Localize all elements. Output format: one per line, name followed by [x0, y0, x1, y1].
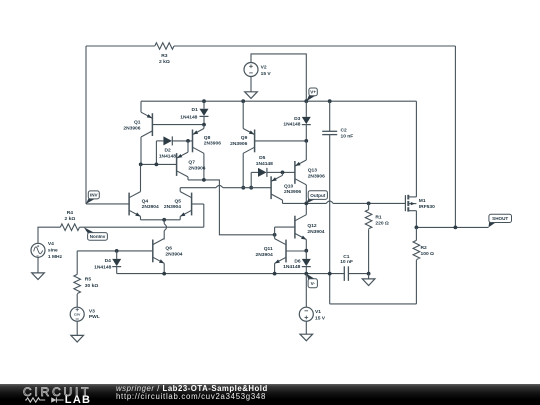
svg-text:M1: M1 — [419, 198, 426, 204]
transistor Q10 — [271, 172, 301, 203]
wire — [141, 163, 177, 165]
ground — [71, 335, 84, 342]
svg-text:1N4148: 1N4148 — [283, 122, 300, 128]
svg-text:R5: R5 — [85, 277, 92, 283]
svg-text:2N3906: 2N3906 — [230, 141, 247, 147]
diode D4 — [94, 251, 121, 274]
wire — [86, 45, 155, 47]
ground — [300, 334, 313, 341]
svg-text:R1: R1 — [375, 215, 382, 221]
transistor Q5 — [164, 188, 204, 220]
wire — [86, 203, 129, 205]
svg-text:2N3906: 2N3906 — [188, 165, 205, 171]
junction — [186, 139, 190, 143]
svg-text:Q13: Q13 — [308, 168, 318, 174]
svg-text:D3: D3 — [294, 116, 301, 122]
wire — [155, 141, 157, 165]
wire — [203, 204, 205, 227]
resistor R1 — [365, 203, 389, 273]
voltage source V3 — [70, 307, 100, 321]
resistor R2 — [413, 227, 434, 304]
wire — [305, 321, 307, 334]
node Output — [306, 191, 327, 204]
wire — [76, 321, 78, 335]
svg-text:sine: sine — [48, 248, 58, 254]
svg-text:2N3906: 2N3906 — [204, 141, 221, 147]
svg-text:V4: V4 — [48, 241, 54, 247]
junction — [328, 272, 332, 276]
diode D2 — [156, 136, 192, 159]
junction — [304, 249, 308, 253]
junction — [202, 123, 206, 127]
resistor R4 — [60, 210, 79, 231]
wire — [80, 226, 204, 228]
svg-text:1N4148: 1N4148 — [180, 114, 197, 120]
transistor Q4 — [129, 164, 159, 219]
voltage source V1 — [299, 274, 325, 322]
transistor Q7 — [177, 141, 206, 180]
transistor Q8 — [193, 125, 222, 180]
ground — [362, 274, 375, 286]
diode D5 — [251, 155, 282, 177]
svg-text:V1: V1 — [315, 309, 321, 315]
svg-text:D5: D5 — [259, 155, 266, 161]
svg-text:V2: V2 — [261, 64, 267, 70]
diode D3 — [283, 101, 310, 141]
junction — [367, 202, 371, 206]
node SHOUT — [489, 214, 512, 227]
wire — [329, 274, 331, 304]
junction — [249, 186, 253, 190]
svg-text:R4: R4 — [67, 210, 74, 216]
svg-text:V3: V3 — [89, 309, 95, 315]
ground — [32, 273, 45, 280]
wire — [283, 201, 406, 203]
wire — [250, 77, 252, 92]
wire — [188, 180, 275, 235]
svg-text:15 V: 15 V — [315, 315, 326, 321]
svg-text:C2: C2 — [341, 128, 348, 134]
svg-text:D6: D6 — [294, 259, 301, 265]
svg-text:R3: R3 — [161, 53, 168, 59]
wire — [415, 211, 417, 228]
svg-text:1N4148: 1N4148 — [256, 161, 273, 167]
svg-text:D4: D4 — [105, 258, 112, 264]
svg-text:10 nF: 10 nF — [340, 259, 353, 265]
svg-text:Q12: Q12 — [307, 223, 317, 229]
svg-text:Q7: Q7 — [188, 159, 195, 165]
svg-text:Q4: Q4 — [142, 198, 149, 204]
junction — [328, 99, 332, 103]
wire — [164, 220, 166, 240]
resistor R5 — [74, 274, 98, 293]
wire — [117, 273, 345, 275]
voltage source V2 — [244, 63, 271, 77]
svg-text:2N3906: 2N3906 — [123, 126, 140, 132]
junction — [162, 218, 166, 222]
svg-text:V-: V- — [311, 281, 316, 286]
svg-text:Q10: Q10 — [284, 183, 294, 189]
svg-text:1 MHz: 1 MHz — [48, 254, 63, 260]
wire — [37, 257, 39, 273]
svg-text:IRF530: IRF530 — [419, 204, 435, 210]
svg-text:2N3904: 2N3904 — [165, 252, 182, 258]
junction — [241, 99, 245, 103]
svg-text:2N3906: 2N3906 — [308, 174, 325, 180]
node V- — [306, 274, 317, 288]
svg-text:NonInv: NonInv — [90, 234, 106, 239]
svg-text:Q1: Q1 — [134, 120, 141, 126]
transistor Q12 — [275, 203, 325, 250]
junction — [139, 163, 143, 167]
wire — [180, 185, 271, 187]
svg-text:CSV: CSV — [74, 312, 81, 316]
wire — [251, 54, 306, 101]
transistor Q9 — [230, 101, 306, 188]
capacitor C1 — [340, 254, 368, 281]
junction — [241, 186, 245, 190]
junction — [415, 226, 419, 230]
junction — [115, 249, 119, 253]
svg-text:V+: V+ — [310, 90, 316, 95]
wire — [274, 227, 276, 235]
svg-text:Q11: Q11 — [264, 246, 273, 252]
wire — [77, 250, 153, 252]
junction — [304, 272, 308, 276]
wire — [76, 251, 78, 275]
junction — [202, 99, 206, 103]
node V+ — [306, 88, 317, 101]
svg-text:Q9: Q9 — [241, 135, 248, 141]
CircuitLab logo — [23, 386, 91, 398]
svg-text:30 kΩ: 30 kΩ — [85, 283, 99, 289]
svg-text:2 kΩ: 2 kΩ — [159, 59, 170, 65]
wire — [38, 227, 60, 243]
svg-text:Q6: Q6 — [165, 245, 172, 251]
diode D1 — [180, 101, 208, 124]
wire — [330, 303, 417, 305]
svg-text:1N4148: 1N4148 — [159, 153, 176, 159]
transistor Q6 — [153, 239, 183, 274]
junction — [273, 233, 277, 237]
transistor M1 — [405, 195, 435, 212]
svg-text:Q8: Q8 — [204, 135, 211, 141]
junction — [155, 163, 159, 167]
svg-text:2 kΩ: 2 kΩ — [65, 216, 76, 222]
svg-text:D1: D1 — [192, 107, 199, 113]
svg-text:D2: D2 — [164, 147, 171, 153]
wire — [454, 46, 456, 227]
svg-text:INV: INV — [90, 193, 99, 198]
svg-text:PWL: PWL — [89, 314, 100, 320]
wire — [416, 226, 488, 228]
footer bar — [0, 384, 540, 405]
svg-text:R2: R2 — [421, 245, 428, 251]
wire — [141, 100, 416, 102]
junction — [202, 178, 206, 182]
voltage source V4 — [31, 241, 63, 260]
svg-text:2N3906: 2N3906 — [284, 189, 301, 195]
wire — [250, 172, 252, 187]
svg-text:15 V: 15 V — [261, 71, 272, 77]
svg-text:Output: Output — [310, 193, 326, 198]
wire — [85, 46, 87, 204]
junction — [281, 171, 285, 175]
junction — [162, 272, 166, 276]
junction — [273, 272, 277, 276]
svg-text:10 nF: 10 nF — [341, 133, 354, 139]
svg-text:2N3904: 2N3904 — [256, 252, 273, 258]
svg-text:2N3904: 2N3904 — [164, 204, 181, 210]
svg-text:1N4148: 1N4148 — [94, 265, 111, 271]
node INV — [86, 191, 99, 204]
capacitor C2 — [322, 101, 353, 273]
svg-text:Q5: Q5 — [174, 198, 181, 204]
resistor R3 — [155, 43, 174, 65]
transistor Q11 — [256, 235, 307, 274]
svg-text:2N3904: 2N3904 — [307, 229, 324, 235]
junction — [367, 272, 371, 276]
ground — [245, 92, 258, 99]
wire — [174, 45, 455, 47]
junction — [304, 202, 308, 206]
svg-text:220 Ω: 220 Ω — [375, 221, 389, 227]
wire — [415, 101, 417, 197]
svg-text:1N4148: 1N4148 — [283, 264, 300, 270]
diode D6 — [283, 251, 311, 274]
junction — [454, 226, 458, 230]
node NonInv — [84, 227, 108, 240]
transistor Q13 — [283, 141, 326, 204]
svg-text:SHOUT: SHOUT — [492, 216, 508, 221]
transistor Q1 — [123, 101, 204, 164]
wire — [76, 294, 78, 307]
svg-text:2N3904: 2N3904 — [142, 204, 159, 210]
junction — [304, 99, 308, 103]
svg-text:100 Ω: 100 Ω — [421, 251, 435, 257]
wire — [141, 219, 181, 221]
junction — [304, 139, 308, 143]
